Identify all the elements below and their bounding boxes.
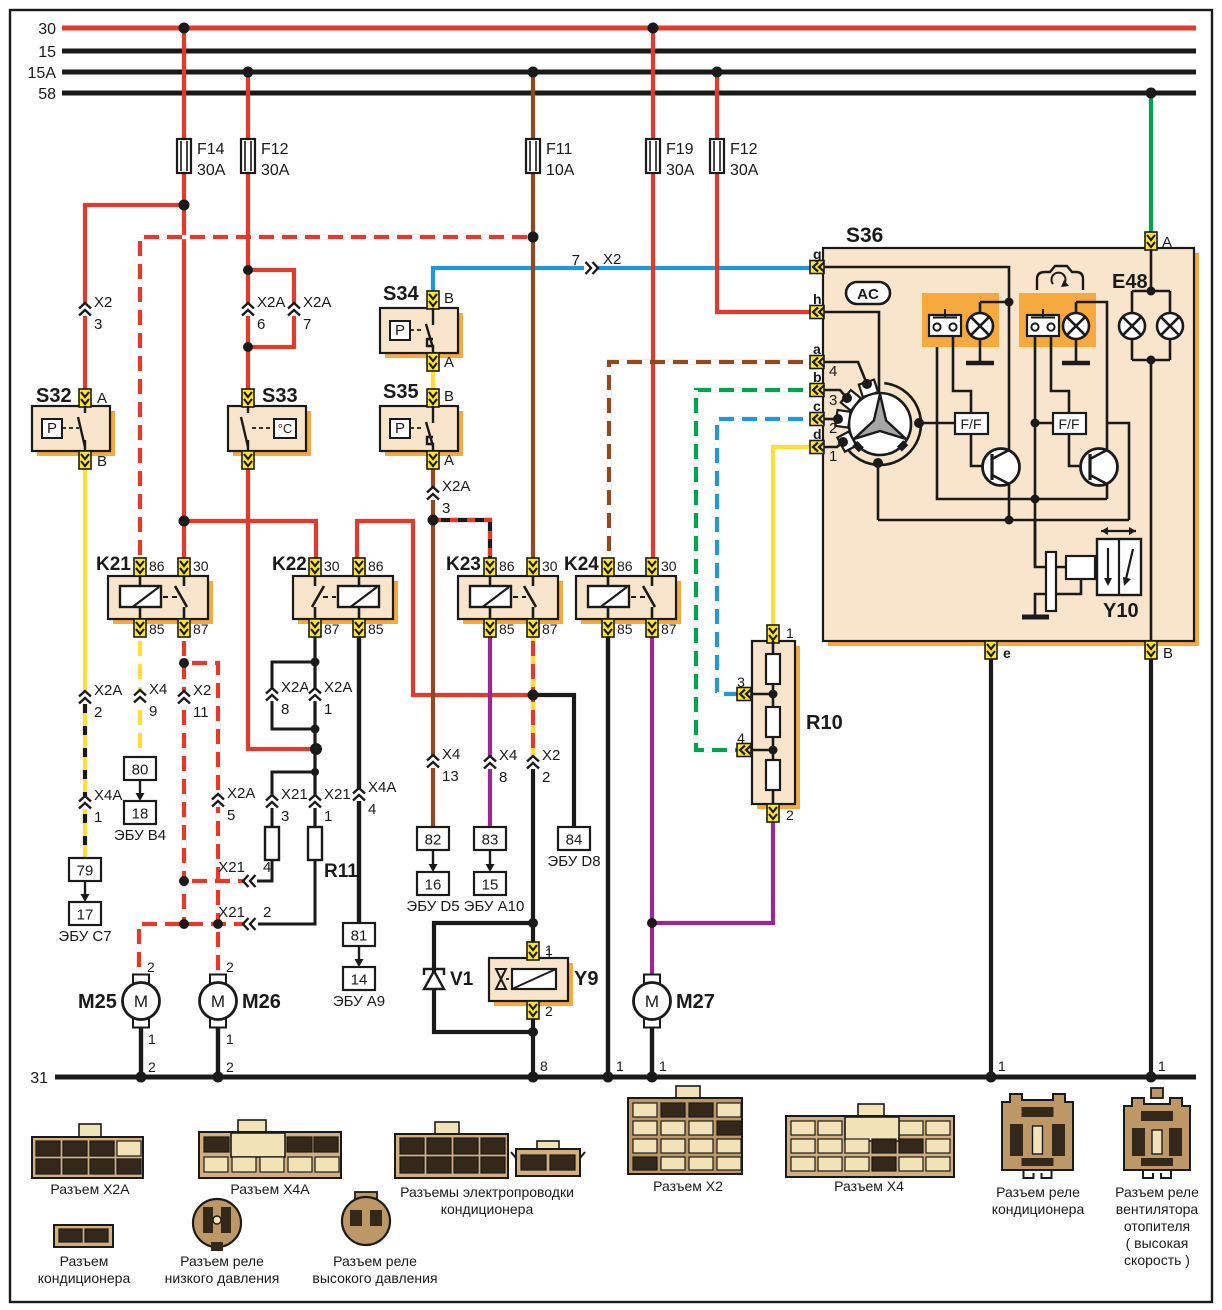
connector drawing AC harness (pair) — [395, 1122, 585, 1217]
svg-text:79: 79 — [77, 863, 94, 880]
svg-text:F12: F12 — [261, 141, 289, 158]
wire: yellow S32-B to ECU C7 via X2A-2, X4A-1 — [83, 468, 87, 691]
node: red y=521 — [179, 516, 190, 527]
svg-text:2: 2 — [226, 959, 234, 975]
connector drawing heater fan relay socket — [1115, 1088, 1199, 1268]
fuse F12 30A (second) — [710, 139, 724, 173]
svg-text:4: 4 — [263, 859, 271, 876]
svg-text:кондиционера: кондиционера — [992, 1201, 1085, 1217]
svg-text:B: B — [444, 388, 454, 405]
svg-text:2: 2 — [542, 769, 550, 786]
connector drawing X4 — [786, 1104, 954, 1194]
connector drawing X2 — [628, 1086, 742, 1194]
svg-text:1: 1 — [324, 808, 332, 825]
wire: black/red dashed node to K23-86 — [433, 520, 490, 563]
svg-text:13: 13 — [442, 768, 459, 785]
motor M27 — [634, 975, 715, 1028]
svg-text:Y9: Y9 — [574, 968, 598, 990]
svg-text:85: 85 — [617, 621, 633, 637]
wire: red/white dashed K21-87 harness to M25/M26 and X21 — [182, 633, 186, 924]
svg-text:86: 86 — [499, 558, 515, 574]
wire: black K24-85 to bus 31 — [606, 633, 610, 1077]
S36 internal: emitter rail to Y10 — [878, 519, 1129, 522]
svg-text:e: e — [1003, 645, 1011, 661]
svg-text:87: 87 — [542, 621, 558, 637]
wire: red branch to S32-A via X2 pin 3 — [85, 205, 184, 389]
svg-text:30A: 30A — [197, 162, 226, 179]
svg-text:F19: F19 — [666, 141, 694, 158]
bus wire 15A — [62, 70, 1196, 75]
wire: green/white dashed S36 pin b to R10 pin 4 — [696, 390, 811, 750]
svg-text:P: P — [395, 420, 405, 437]
svg-text:31: 31 — [30, 1070, 48, 1087]
svg-text:°C: °C — [278, 421, 293, 436]
wire: brown/white dashed S36 pin a to K24-86 — [609, 362, 811, 563]
S36 wiring: AC switch to F/F1 — [953, 336, 971, 413]
svg-text:X2A: X2A — [227, 785, 255, 802]
node: red to K23-87 — [528, 690, 539, 701]
relay K22 — [272, 554, 398, 637]
S36 flip-flop F/F 1 — [955, 413, 988, 434]
svg-text:2: 2 — [545, 1003, 553, 1019]
svg-text:2: 2 — [263, 904, 271, 921]
fuse F19 30A — [646, 139, 660, 173]
svg-text:X21: X21 — [218, 859, 245, 876]
svg-text:M: M — [645, 992, 659, 1011]
node: Y9/V1 — [528, 918, 538, 928]
svg-text:30A: 30A — [666, 162, 695, 179]
node: S33 to K22-87 — [310, 743, 322, 755]
node: K22-87 split/rejoin — [311, 658, 320, 667]
svg-text:X4: X4 — [442, 746, 460, 763]
svg-text:X2: X2 — [94, 294, 112, 311]
svg-text:30: 30 — [38, 21, 56, 38]
svg-text:X2A: X2A — [442, 478, 470, 495]
svg-text:S32: S32 — [36, 385, 72, 407]
svg-text:16: 16 — [425, 877, 442, 894]
svg-text:30: 30 — [324, 558, 340, 574]
svg-text:высокого давления: высокого давления — [312, 1270, 437, 1286]
S36 A/C button block (orange) — [922, 293, 999, 347]
node: X21-4 tap — [179, 876, 189, 886]
svg-text:d: d — [813, 426, 822, 442]
svg-text:2: 2 — [829, 420, 837, 437]
S36 pin b — [810, 369, 824, 397]
S36 internal: feed line from pin g — [824, 267, 1009, 450]
svg-text:B: B — [1163, 645, 1173, 662]
svg-text:a: a — [813, 341, 821, 357]
wire: black M27 to bus 31 — [650, 1027, 654, 1077]
svg-text:B: B — [444, 290, 454, 307]
svg-text:7: 7 — [303, 316, 311, 333]
svg-text:11: 11 — [193, 704, 209, 721]
svg-text:30A: 30A — [730, 162, 759, 179]
svg-text:85: 85 — [368, 621, 384, 637]
bus wire 15 — [62, 49, 1196, 54]
svg-text:A: A — [97, 390, 107, 407]
motor M26 — [200, 975, 281, 1028]
svg-text:A: A — [1162, 234, 1172, 251]
ECU pin 81/14 (A9) — [333, 923, 385, 1010]
resistor R11 left leg — [265, 827, 279, 860]
wire: black R11 left leg to X21-4 — [257, 860, 272, 881]
relay K23 — [446, 554, 563, 637]
S36 AC label — [846, 282, 890, 304]
svg-text:X2: X2 — [542, 747, 560, 764]
control panel S36 — [823, 224, 1199, 646]
fuse F14 30A — [177, 139, 191, 173]
svg-text:1: 1 — [786, 625, 794, 641]
svg-text:X21: X21 — [324, 786, 351, 803]
S36 node dots — [1005, 298, 1014, 307]
svg-text:14: 14 — [351, 972, 368, 989]
svg-text:18: 18 — [132, 806, 149, 823]
S36 wiring: recirc switch to F/F2 — [1034, 336, 1037, 567]
wire: black M26 to bus 31 — [216, 1027, 220, 1077]
node: bus taps — [179, 23, 190, 34]
switch S33 (thermostat) — [228, 385, 311, 469]
svg-text:Разъем X4: Разъем X4 — [834, 1178, 904, 1194]
svg-text:1: 1 — [616, 1058, 624, 1074]
svg-text:F14: F14 — [197, 141, 225, 158]
svg-text:1: 1 — [94, 809, 102, 826]
svg-text:8: 8 — [540, 1058, 548, 1074]
wire: black Y9 pin 2 to bus 31 — [531, 1017, 535, 1077]
wire: red F14 feed from bus 30 to K21-30 — [182, 28, 186, 139]
connector drawing A/C relay socket — [992, 1094, 1085, 1217]
svg-text:30: 30 — [661, 558, 677, 574]
node: purple M27 — [647, 918, 657, 928]
switch S34 (high pressure switch) — [380, 283, 463, 371]
S36 Y10 air blend actuator — [1022, 520, 1141, 622]
svg-text:K23: K23 — [446, 554, 481, 575]
ECU pin 83/15 (A10) — [464, 827, 525, 915]
S36 wiring: F/F1 to Q1 base — [971, 434, 991, 466]
svg-text:86: 86 — [149, 558, 165, 574]
wire: red F12b feed to S36 pin h — [715, 72, 719, 139]
svg-text:58: 58 — [38, 86, 56, 103]
wire: red S33 output to K22-87 node — [248, 468, 316, 749]
svg-text:b: b — [813, 369, 822, 385]
svg-text:3: 3 — [442, 500, 450, 517]
svg-text:R10: R10 — [806, 712, 843, 734]
svg-text:4: 4 — [368, 801, 376, 818]
svg-text:ЭБУ D8: ЭБУ D8 — [547, 853, 600, 870]
ECU pin 79/17 (C7) — [58, 858, 111, 945]
wire: black K22-87 circuit through X2A 8/1 and R11 — [313, 633, 316, 860]
wire: green bus 58 to E48 pin A — [1149, 93, 1153, 232]
svg-text:1: 1 — [324, 701, 332, 718]
svg-text:4: 4 — [829, 363, 837, 380]
svg-text:87: 87 — [661, 621, 677, 637]
wire: yellow S34-A to S35-B — [431, 370, 435, 389]
svg-text:низкого давления: низкого давления — [165, 1270, 280, 1286]
svg-text:15: 15 — [38, 44, 56, 61]
S36 pin e — [985, 641, 1011, 661]
svg-text:3: 3 — [829, 392, 837, 409]
svg-text:K22: K22 — [272, 554, 307, 575]
wire: black K22-85 to ECU A9 via X4A-4 — [357, 633, 361, 923]
svg-text:X2A: X2A — [94, 682, 122, 699]
svg-text:83: 83 — [482, 832, 499, 849]
S36 pin h — [810, 291, 824, 319]
svg-text:X2A: X2A — [257, 294, 285, 311]
svg-text:30: 30 — [193, 558, 209, 574]
svg-text:R11: R11 — [324, 861, 358, 882]
svg-text:кондиционера: кондиционера — [38, 1270, 131, 1286]
svg-text:X2A: X2A — [324, 679, 352, 696]
node: X2A loop bottom — [243, 342, 253, 352]
switch S35 (low pressure switch) — [380, 381, 463, 469]
bus wire 31 (ground) — [55, 1075, 1196, 1080]
S36 fan speed rotary switch — [824, 362, 955, 520]
svg-text:80: 80 — [132, 762, 149, 779]
svg-text:2: 2 — [94, 704, 102, 721]
svg-text:X2A: X2A — [281, 679, 309, 696]
wire: red K22-86 to K23-87 node — [357, 521, 533, 695]
wire: brown F11 feed to K23-30 — [531, 72, 535, 139]
svg-text:30: 30 — [542, 558, 558, 574]
ECU pin 84 (D8) — [547, 827, 600, 870]
svg-text:86: 86 — [617, 558, 633, 574]
S36 A/C indicator lamp — [966, 302, 1009, 363]
wire: red junction y=521 to K22-30 — [184, 521, 316, 563]
relay K21 — [96, 554, 213, 637]
svg-text:8: 8 — [281, 701, 289, 718]
lamp cluster E48 — [1112, 232, 1183, 641]
wire: black R11 right leg to X21-2 — [258, 860, 315, 924]
svg-text:M26: M26 — [242, 991, 281, 1013]
svg-text:82: 82 — [425, 832, 442, 849]
wire: purple R10 pin 2 to M27 node — [652, 821, 773, 923]
wire: purple K23-85 to ECU A10 via X4-8 — [488, 633, 492, 827]
S36 transistor Q2 — [1081, 449, 1118, 500]
svg-text:1: 1 — [829, 448, 837, 465]
svg-text:ЭБУ D5: ЭБУ D5 — [406, 898, 459, 915]
svg-text:9: 9 — [149, 703, 157, 720]
S36 recirculation icon — [1037, 266, 1083, 290]
svg-text:AC: AC — [857, 286, 879, 303]
relay K24 — [564, 554, 681, 637]
svg-text:15: 15 — [482, 877, 499, 894]
svg-text:7: 7 — [572, 252, 580, 269]
svg-text:F12: F12 — [730, 141, 758, 158]
wire: red/white dashed from K21-86 up and over to F11 node — [140, 237, 533, 563]
connector drawing X4A — [199, 1120, 341, 1197]
svg-text:ЭБУ B4: ЭБУ B4 — [114, 827, 166, 844]
svg-text:S33: S33 — [262, 385, 298, 407]
svg-text:A: A — [444, 452, 454, 469]
svg-text:10A: 10A — [546, 162, 575, 179]
svg-text:X4: X4 — [149, 681, 167, 698]
svg-text:вентилятора: вентилятора — [1116, 1201, 1199, 1217]
S36 transistor Q1 — [983, 449, 1020, 521]
resistor R11 — [308, 827, 322, 860]
svg-text:X21: X21 — [218, 904, 245, 921]
node: K21-87 split — [179, 658, 189, 668]
svg-text:X4: X4 — [499, 747, 517, 764]
svg-text:1: 1 — [659, 1058, 667, 1074]
svg-text:87: 87 — [193, 621, 209, 637]
svg-text:3: 3 — [737, 674, 745, 690]
svg-text:X4A: X4A — [94, 787, 122, 804]
svg-text:M: M — [134, 992, 148, 1011]
svg-text:S36: S36 — [846, 224, 883, 247]
connector drawing high pressure relay — [312, 1192, 437, 1286]
wire: brown S35-A to ECU D5 via X2A-3 and X4-13 — [431, 468, 435, 827]
node: brown X2A-3 branch — [428, 515, 439, 526]
svg-text:1: 1 — [148, 1031, 156, 1047]
wire: purple K24-87 to M27 — [650, 633, 654, 975]
svg-text:P: P — [47, 420, 57, 437]
svg-text:K24: K24 — [564, 554, 599, 575]
svg-text:ЭБУ A9: ЭБУ A9 — [333, 993, 385, 1010]
wire: blue from S34-B to S36 pin g — [433, 268, 811, 291]
S36 internal: common rail — [937, 336, 1107, 499]
svg-text:g: g — [813, 246, 822, 262]
resistor block R10 — [737, 625, 843, 823]
S36 internal: feed line from pin h to fan switch — [824, 312, 879, 398]
svg-text:4: 4 — [737, 730, 745, 746]
svg-text:85: 85 — [149, 621, 165, 637]
svg-text:F/F: F/F — [1059, 416, 1080, 432]
svg-text:5: 5 — [227, 807, 235, 824]
wire: yellow/white dashed K21-85 to ECU B4 via X4-9 — [138, 633, 142, 757]
svg-text:2: 2 — [147, 959, 155, 975]
svg-text:X2A: X2A — [303, 294, 331, 311]
bus wire 30 — [62, 26, 1196, 31]
svg-text:3: 3 — [281, 808, 289, 825]
svg-text:B: B — [97, 453, 107, 470]
S36 pin B — [1145, 641, 1173, 662]
svg-text:6: 6 — [257, 316, 265, 333]
svg-text:кондиционера: кондиционера — [441, 1201, 534, 1217]
ECU pin 82/16 (D5) — [406, 827, 459, 915]
wire: blue/white dashed S36 pin c to R10 pin 3 — [717, 419, 811, 694]
svg-text:Разъем X2А: Разъем X2А — [50, 1181, 130, 1197]
wire: red/yellow dashed K23-87 to X2-2 — [531, 633, 535, 756]
svg-text:отопителя: отопителя — [1124, 1218, 1190, 1234]
svg-text:17: 17 — [77, 907, 94, 924]
svg-text:85: 85 — [499, 621, 515, 637]
svg-text:Разъем X2: Разъем X2 — [653, 1178, 723, 1194]
wire: red F19 feed to K24-30 — [651, 28, 655, 139]
svg-text:Разъем реле: Разъем реле — [1115, 1184, 1199, 1200]
node: X21-2 taps — [179, 919, 189, 929]
S36 flip-flop F/F 2 — [1053, 413, 1086, 434]
motor M25 — [78, 975, 160, 1028]
svg-text:Разъем: Разъем — [60, 1253, 109, 1269]
svg-text:86: 86 — [368, 558, 384, 574]
svg-text:Разъем X4А: Разъем X4А — [230, 1181, 310, 1197]
svg-text:ЭБУ A10: ЭБУ A10 — [464, 898, 525, 915]
svg-text:Разъем реле: Разъем реле — [996, 1184, 1080, 1200]
svg-text:X4A: X4A — [368, 779, 396, 796]
svg-text:F11: F11 — [546, 141, 572, 158]
wire: black V1 diode loop — [434, 923, 533, 1032]
svg-text:2: 2 — [786, 807, 794, 823]
solenoid Y9 (compressor clutch) — [489, 942, 598, 1019]
S36 pin d — [810, 426, 824, 454]
wire: red/white dashed to X21-4 — [184, 879, 243, 883]
wire: red F12 feed to S33 with X2A 6/7 parallel loop — [246, 72, 250, 139]
svg-text:2: 2 — [226, 1059, 234, 1075]
svg-text:ЭБУ C7: ЭБУ C7 — [58, 928, 111, 945]
wire: black S36 pin e to bus 31 — [989, 657, 993, 1077]
svg-text:K21: K21 — [96, 554, 131, 575]
svg-text:c: c — [813, 398, 821, 414]
svg-text:81: 81 — [351, 928, 368, 945]
S36 pin c — [810, 398, 824, 426]
svg-text:M27: M27 — [676, 991, 715, 1013]
svg-text:S35: S35 — [383, 381, 419, 403]
svg-text:1: 1 — [545, 945, 553, 961]
svg-text:30A: 30A — [261, 162, 290, 179]
ECU pin 80/18 (B4) — [114, 757, 166, 844]
connector drawing A/C unit — [38, 1225, 131, 1286]
switch S32 (A/C pressure switch) — [32, 385, 115, 470]
S36 pin g — [810, 246, 824, 274]
node: bus31 taps — [136, 1072, 147, 1083]
S36 recirculation button block (orange) — [1019, 293, 1096, 347]
wire: black S36 pin B to bus 31 — [1149, 657, 1153, 1077]
wire: yellow S36 pin d to R10 pin 1 — [773, 447, 811, 625]
S36 wiring: Q2 collector rail — [1107, 423, 1129, 520]
svg-text:Y10: Y10 — [1103, 600, 1139, 622]
svg-text:1: 1 — [998, 1058, 1006, 1074]
svg-text:P: P — [395, 322, 405, 339]
svg-text:8: 8 — [499, 769, 507, 786]
svg-text:Разъем реле: Разъем реле — [333, 1253, 417, 1269]
svg-text:1: 1 — [226, 1031, 234, 1047]
svg-text:F/F: F/F — [961, 416, 982, 432]
node: dashed line to F11 wire — [528, 232, 539, 243]
connector drawing low pressure relay — [165, 1199, 280, 1286]
wire: black node to ECU D8 — [533, 695, 574, 827]
connector drawing X2A — [32, 1124, 143, 1197]
fuse F12 30A — [241, 139, 255, 173]
fuse F11 10A — [526, 139, 540, 173]
svg-text:X21: X21 — [281, 786, 308, 803]
svg-text:A: A — [444, 354, 454, 371]
svg-text:Разъем реле: Разъем реле — [180, 1253, 264, 1269]
svg-text:M: M — [211, 992, 225, 1011]
svg-text:S34: S34 — [383, 283, 419, 305]
svg-text:87: 87 — [324, 621, 340, 637]
svg-text:скорость ): скорость ) — [1124, 1252, 1190, 1268]
svg-text:X2: X2 — [603, 251, 621, 268]
svg-text:Разъемы электропроводки: Разъемы электропроводки — [400, 1184, 574, 1200]
node: F14 branch — [179, 200, 190, 211]
S36 recirculation indicator lamp — [1062, 302, 1107, 450]
svg-text:2: 2 — [148, 1059, 156, 1075]
S36 wiring: F/F2 to Q2 base — [1069, 434, 1089, 466]
svg-text:M25: M25 — [78, 991, 117, 1013]
bus wire 58 — [62, 91, 1196, 96]
svg-text:h: h — [813, 291, 822, 307]
svg-text:3: 3 — [94, 316, 102, 333]
wire: black X2-2 to Y9 pin 1 — [531, 769, 535, 942]
wire: red/white dashed M25 M26 to X21-2 — [139, 924, 243, 975]
svg-text:( высокая: ( высокая — [1126, 1235, 1189, 1251]
diode V1 — [424, 969, 474, 990]
svg-text:84: 84 — [566, 832, 583, 849]
svg-text:15A: 15A — [28, 65, 57, 82]
svg-text:1: 1 — [1158, 1058, 1166, 1074]
wire: black M25 to bus 31 — [139, 1027, 143, 1077]
svg-text:X2: X2 — [193, 682, 211, 699]
S36 pin a — [810, 341, 824, 369]
